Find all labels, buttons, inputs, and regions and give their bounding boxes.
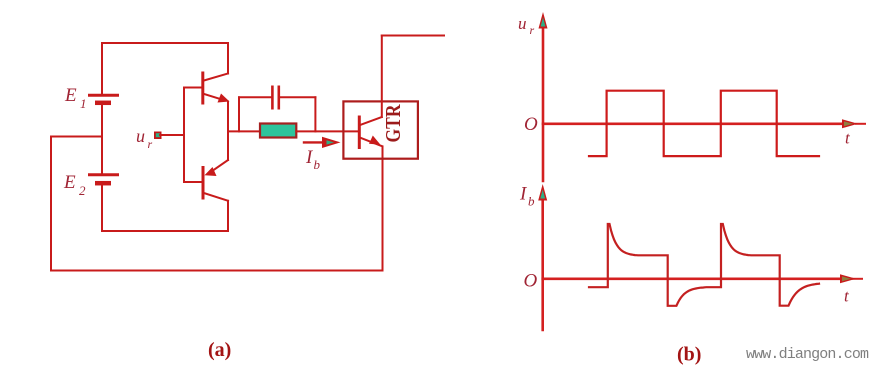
- wire outer right column (GTR emitter return): [382, 147, 384, 271]
- resistor Rb (base resistor, green): [260, 124, 296, 138]
- svg-text:O: O: [524, 114, 538, 135]
- wire common base column: [183, 88, 185, 183]
- wire GTR collector vertical: [381, 36, 383, 118]
- svg-text:t: t: [845, 129, 851, 148]
- wire left column upper (top rail to E1): [101, 43, 103, 94]
- wire Q1 base stub: [184, 87, 201, 89]
- label (a): [208, 339, 231, 361]
- node ur input: [154, 132, 162, 140]
- label Ib: [305, 147, 321, 172]
- svg-text:E: E: [63, 172, 76, 193]
- capacitor C: [272, 86, 278, 110]
- wire top rail E1 to Q1 collector: [102, 42, 228, 44]
- label ur: [136, 126, 153, 151]
- svg-text:(a): (a): [208, 339, 231, 361]
- arrow Ib axis: [538, 184, 547, 201]
- axis Ib vertical: [541, 201, 544, 330]
- label Ib axis: [519, 184, 535, 209]
- axis t upper horizontal: [543, 123, 865, 126]
- arrow ur axis: [539, 12, 548, 29]
- label (b): [677, 344, 701, 365]
- label t lower: [844, 287, 850, 306]
- waveform Ib spikes: [589, 224, 819, 306]
- wire capacitor branch left vertical: [238, 97, 240, 131]
- label ur axis: [518, 14, 535, 37]
- svg-text:r: r: [148, 137, 153, 151]
- svg-text:u: u: [518, 14, 527, 33]
- wire ur input to base column: [160, 134, 184, 136]
- arrow t upper axis: [842, 119, 858, 128]
- current arrow Ib: [304, 137, 341, 148]
- svg-text:O: O: [524, 271, 538, 292]
- wire capacitor branch top left: [239, 96, 271, 98]
- svg-text:t: t: [844, 287, 850, 306]
- arrow t lower axis: [840, 274, 856, 283]
- wire capacitor branch right vertical: [314, 97, 316, 131]
- wire inner bottom rail: [102, 230, 228, 232]
- label O upper: [524, 114, 538, 135]
- svg-text:b: b: [314, 157, 321, 172]
- axis t lower horizontal: [543, 277, 862, 280]
- wire left column middle (E1 to E2): [101, 104, 103, 173]
- transistor Q1 (upper driver NPN): [203, 73, 230, 103]
- svg-text:E: E: [64, 85, 77, 106]
- wire left column lower (E2 to inner bottom rail): [101, 184, 103, 231]
- wire midpoint tap (between E1/E2 to outer left): [51, 136, 102, 138]
- waveform ur square wave: [589, 91, 819, 156]
- svg-text:u: u: [136, 126, 145, 146]
- label E1: [64, 85, 87, 111]
- label t upper: [845, 129, 851, 148]
- wire Q2 base stub: [184, 181, 201, 183]
- battery E2: [88, 175, 119, 183]
- label GTR: [381, 104, 405, 143]
- svg-text:1: 1: [80, 96, 87, 111]
- svg-text:b: b: [528, 194, 535, 209]
- wire resistor to GTR base: [296, 130, 358, 132]
- svg-text:www.diangon.com: www.diangon.com: [746, 346, 869, 363]
- svg-text:r: r: [530, 23, 535, 37]
- svg-text:I: I: [519, 184, 528, 205]
- transistor Q2 (lower driver PNP): [203, 160, 228, 201]
- watermark www.diangon.com: [746, 346, 869, 363]
- svg-text:(b): (b): [677, 344, 701, 365]
- wire output to resistor: [228, 130, 260, 132]
- svg-text:GTR: GTR: [381, 104, 405, 143]
- wire capacitor branch top right: [280, 96, 315, 98]
- transistor GTR: [359, 117, 382, 148]
- GTR box: [343, 101, 418, 158]
- wire top right stub: [382, 35, 444, 37]
- wire right column lower (Q2 collector to inner bottom rail): [227, 201, 229, 231]
- label O lower: [524, 271, 538, 292]
- wire emitter column (Q1 emitter to Q2 emitter): [227, 102, 229, 161]
- wire right column upper (top rail to Q1 collector): [227, 43, 229, 74]
- axis ur vertical: [542, 28, 545, 181]
- wire outer bottom rail: [51, 270, 383, 272]
- svg-text:2: 2: [79, 183, 86, 198]
- wire outer left column: [50, 137, 52, 271]
- battery E1: [88, 95, 119, 103]
- label E2: [63, 172, 86, 198]
